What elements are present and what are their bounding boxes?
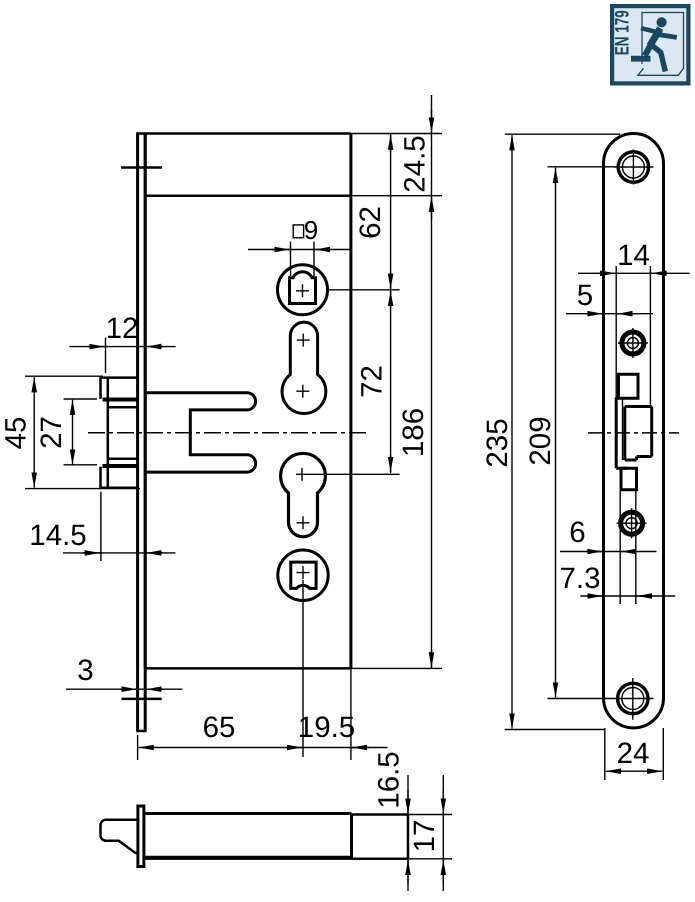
svg-text:62: 62	[354, 206, 387, 239]
dimension 186	[397, 408, 432, 668]
svg-text:24.5: 24.5	[399, 135, 432, 192]
follower centre extension line	[328, 289, 400, 291]
dimension 62	[354, 134, 391, 290]
svg-text:235: 235	[481, 418, 514, 467]
dimension 7.3	[559, 562, 675, 596]
dimension 24.5	[399, 95, 432, 668]
case top edge extension line	[351, 133, 442, 135]
threshold	[638, 68, 684, 75]
svg-text:45: 45	[0, 417, 33, 450]
svg-text:9: 9	[304, 215, 318, 245]
top screw hole	[614, 150, 654, 185]
svg-text:12: 12	[106, 312, 139, 345]
latch bolt in cutout	[625, 407, 652, 461]
faceplate outline (stadium)	[604, 134, 664, 728]
svg-text:5: 5	[577, 279, 593, 312]
dimension 45	[0, 376, 140, 488]
svg-text:72: 72	[356, 365, 389, 398]
faceplate (edge view)	[136, 134, 146, 732]
extension lines 16.5/17	[408, 815, 452, 859]
case bottom edge extension line	[351, 667, 442, 669]
bottom screw hole	[611, 678, 654, 720]
latch head side view	[101, 820, 138, 853]
svg-text:14: 14	[617, 239, 650, 272]
dimension 19.5	[298, 711, 388, 748]
dimension 235	[481, 134, 620, 729]
bottom square hole (square in circle)	[278, 550, 328, 600]
lock case side view	[144, 814, 408, 859]
dimension 3	[66, 654, 182, 689]
dimension 16.5	[373, 751, 409, 891]
svg-text:7.3: 7.3	[559, 562, 600, 595]
faceplate side view	[138, 806, 144, 867]
running man	[631, 17, 677, 71]
faceplate tick bottom	[122, 698, 162, 701]
svg-text:EN 179: EN 179	[612, 10, 634, 55]
svg-text:14.5: 14.5	[29, 519, 86, 552]
middle upper hole	[618, 328, 648, 358]
dimension 65	[138, 668, 351, 760]
centerline (dash-dot)	[88, 432, 367, 434]
svg-text:209: 209	[524, 416, 557, 465]
dimension 14.5	[29, 492, 175, 561]
latch bolt (front view)	[101, 376, 138, 489]
dimension 209	[524, 167, 614, 699]
latch cutout: step + bottom small square	[616, 398, 636, 490]
svg-text:19.5: 19.5	[298, 711, 355, 744]
dimension 72	[356, 290, 391, 473]
svg-text:6: 6	[569, 516, 585, 549]
extension line from bottom hole centre	[302, 580, 304, 757]
dimension square-9	[248, 215, 351, 276]
inner line extension	[351, 195, 442, 197]
svg-text:186: 186	[397, 408, 430, 457]
svg-text:27: 27	[35, 416, 68, 449]
middle lower hole	[617, 508, 647, 538]
dimension 24	[605, 728, 664, 780]
svg-text:24: 24	[617, 737, 650, 770]
EN 179 badge	[610, 4, 691, 86]
svg-text:17: 17	[408, 820, 441, 853]
door frame	[642, 13, 684, 70]
euro profile cylinder cutout	[281, 453, 326, 536]
follower hole (square in circle)	[278, 265, 328, 315]
dimension 17	[408, 775, 443, 891]
dimension 27	[35, 399, 97, 465]
faceplate centreline (dash-dot)	[588, 432, 679, 434]
latch cutout thin outline	[616, 266, 650, 604]
faceplate tick top	[121, 166, 162, 169]
dimension 14	[578, 239, 690, 273]
dimension 5	[566, 279, 653, 314]
upper keyhole cutout	[282, 322, 326, 413]
svg-text:65: 65	[203, 711, 236, 744]
lock case outline	[136, 134, 351, 669]
spindle fork cutout (E-shape)	[146, 393, 256, 472]
latch cutout: top small square	[619, 374, 639, 398]
euro cylinder centre extension line	[296, 473, 400, 475]
dimension 12	[70, 312, 176, 373]
svg-text:16.5: 16.5	[373, 751, 406, 808]
svg-text:3: 3	[77, 654, 93, 687]
dimension 6	[560, 516, 656, 552]
case inner horizontal line	[145, 194, 351, 197]
